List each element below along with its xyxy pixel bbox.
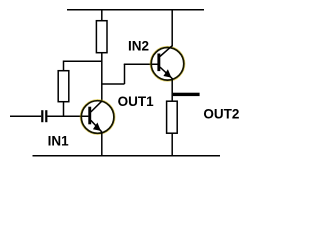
svg-text:IN2: IN2: [128, 38, 149, 53]
wire Q1 emitter to ground rail: [101, 132, 103, 157]
svg-text:OUT2: OUT2: [203, 106, 239, 121]
wire C1 to Q1 base: [47, 115, 88, 117]
wire R3 top stub: [63, 61, 65, 72]
transistor Q2: [150, 46, 184, 81]
svg-text:OUT1: OUT1: [118, 94, 154, 109]
wire bias horizontal to R3: [64, 60, 103, 62]
node OUT2 terminal thick bar: [173, 93, 200, 96]
wire vertical up to Q2 base level: [124, 64, 126, 84]
svg-text:IN1: IN1: [48, 134, 70, 149]
wire R3 bottom stub to base node: [63, 102, 65, 117]
wire collector tap horizontal: [102, 83, 125, 85]
wire R2 bottom to ground rail: [171, 133, 173, 156]
wire Q2 emitter down to R2: [171, 78, 173, 102]
resistor R1: [96, 21, 107, 53]
wire to Q2 base: [124, 63, 158, 65]
ground rail wire: [33, 155, 221, 157]
transistor Q1: [80, 100, 114, 134]
top supply rail wire: [67, 9, 204, 11]
capacitor C1: [41, 110, 47, 122]
resistor R3: [58, 71, 69, 102]
wire from rail to R1 top: [101, 10, 103, 21]
wire input left of C1: [10, 115, 41, 117]
resistor R2: [167, 101, 178, 133]
wire rail to Q2 collector: [171, 10, 173, 47]
wire R1 bottom to Q1 collector node: [101, 53, 103, 102]
